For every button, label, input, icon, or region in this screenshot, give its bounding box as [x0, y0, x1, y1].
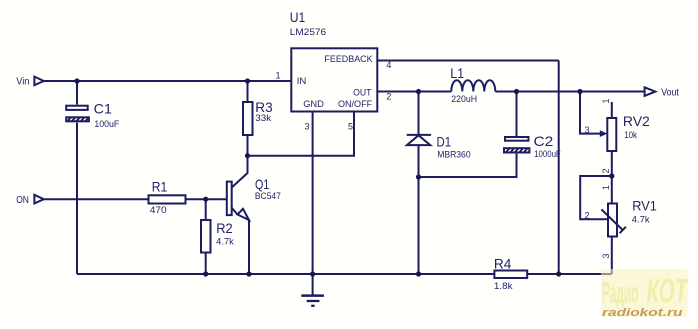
svg-text:220uH: 220uH	[451, 94, 477, 104]
svg-text:GND: GND	[303, 99, 324, 110]
ground	[301, 274, 324, 306]
svg-text:RV1: RV1	[632, 198, 657, 214]
node Vin-R3 junction	[245, 78, 250, 83]
svg-text:Радио: Радио	[602, 277, 639, 310]
wire R2 bottom lead	[205, 253, 207, 275]
node OUT-C2 junction	[514, 89, 519, 94]
svg-text:1: 1	[601, 185, 611, 190]
svg-text:2: 2	[585, 211, 590, 221]
svg-text:R2: R2	[216, 220, 233, 236]
transistor Q1 BC547	[227, 176, 281, 220]
svg-text:Vin: Vin	[16, 77, 29, 88]
resistor R4	[494, 255, 527, 291]
capacitor C2	[504, 133, 561, 159]
svg-text:4: 4	[386, 60, 391, 70]
capacitor C1	[66, 101, 119, 130]
wire C2 top lead	[516, 92, 518, 137]
wire RV2 wiper branch from Vout line	[580, 92, 601, 134]
svg-text:Vout: Vout	[661, 88, 679, 99]
svg-text:IN: IN	[297, 76, 307, 87]
svg-text:FEEDBACK: FEEDBACK	[324, 54, 373, 65]
node R2-rail junction	[203, 271, 208, 276]
wire RV1 pin1-wiper strap	[580, 176, 612, 219]
wire D1 cathode lead	[418, 92, 420, 135]
wire pin3 GND down to ground rail	[312, 112, 314, 275]
wire RV1 pin 1 lead	[611, 176, 613, 204]
inductor L1	[450, 65, 495, 104]
wire ON net	[44, 198, 227, 200]
svg-text:4.7k: 4.7k	[632, 214, 650, 224]
svg-text:Q1: Q1	[255, 176, 269, 192]
svg-text:КОТ: КОТ	[647, 273, 689, 311]
wire RV2 pin 1 stub	[611, 102, 613, 118]
node Vin-C1 junction	[74, 78, 79, 83]
port Vout	[645, 87, 679, 98]
resistor R2	[201, 220, 234, 253]
wire R3 bottom lead	[247, 135, 249, 156]
svg-text:R4: R4	[494, 255, 512, 271]
svg-text:MBR360: MBR360	[437, 150, 470, 160]
node ON-R2 junction	[203, 197, 208, 202]
potentiometer RV1	[601, 198, 657, 237]
svg-text:C2: C2	[534, 133, 554, 149]
svg-text:C1: C1	[94, 101, 113, 117]
svg-text:radiokot.ru: radiokot.ru	[602, 307, 683, 319]
svg-text:4.7k: 4.7k	[216, 236, 234, 246]
svg-text:R1: R1	[152, 179, 168, 195]
svg-text:ON: ON	[16, 195, 29, 206]
node D1-C2 junction	[416, 174, 421, 179]
wire RV1 pin 3 lead to feedback rail	[611, 237, 613, 275]
wire feedback horizontal from pin 4	[378, 60, 559, 62]
svg-text:5: 5	[348, 122, 353, 132]
wire pin5 ON/OFF to Q1 collector node	[248, 112, 355, 156]
wire D1 anode lead down to ground rail	[418, 145, 420, 274]
node OUT-D1 junction	[416, 89, 421, 94]
wire C1 bottom lead down to ground rail	[76, 123, 78, 274]
wire Q1 emitter	[232, 208, 249, 274]
svg-text:10k: 10k	[624, 130, 637, 140]
diode D1 MBR360	[407, 134, 471, 160]
node D1-rail junction	[416, 271, 421, 276]
node RV2-RV1 junction	[609, 173, 614, 178]
wire Q1 collector	[232, 156, 248, 188]
svg-text:L1: L1	[450, 65, 464, 81]
svg-text:3: 3	[305, 122, 310, 132]
svg-text:2: 2	[386, 91, 391, 101]
svg-text:470: 470	[150, 205, 167, 215]
svg-text:3: 3	[601, 253, 611, 258]
wire RV2 pin 2 to RV1 node	[611, 151, 613, 176]
watermark radiokot	[601, 269, 689, 319]
svg-text:LM2576: LM2576	[290, 27, 326, 37]
node feedback-rail junction	[556, 271, 561, 276]
svg-text:1: 1	[601, 98, 611, 103]
svg-text:BC547: BC547	[255, 191, 281, 201]
svg-text:1.8k: 1.8k	[494, 281, 513, 291]
node OUT-RV2 junction	[577, 89, 582, 94]
wire Vin net (input rail)	[44, 80, 291, 82]
wire R2 top lead	[205, 199, 207, 220]
resistor R3	[243, 99, 273, 135]
node R3-pin5-collector junction	[245, 153, 250, 158]
wire ground rail left of R4	[77, 273, 494, 275]
wire R3 top lead	[247, 81, 249, 102]
port Vin	[16, 77, 44, 88]
node emitter-rail junction	[246, 271, 251, 276]
op IC U1 LM2576	[290, 9, 378, 112]
svg-text:100uF: 100uF	[94, 119, 119, 129]
svg-text:2: 2	[601, 168, 611, 173]
svg-text:U1: U1	[290, 9, 306, 25]
svg-text:3: 3	[585, 125, 590, 135]
svg-text:ON/OFF: ON/OFF	[338, 99, 372, 110]
svg-text:1000uF: 1000uF	[534, 149, 561, 159]
resistor R1	[149, 179, 186, 216]
svg-text:RV2: RV2	[623, 113, 650, 129]
wire OUT net (switch node to Vout)	[378, 91, 645, 93]
potentiometer RV2	[600, 113, 650, 151]
wire C1 top lead	[76, 81, 78, 105]
wire C2 bottom lead to D1 anode node	[419, 154, 517, 177]
svg-text:D1: D1	[437, 134, 452, 150]
node GND-rail junction	[310, 271, 315, 276]
wire feedback vertical down to R4 node	[558, 61, 560, 275]
svg-text:33k: 33k	[255, 113, 271, 123]
wire feedback rail right of R4	[527, 273, 612, 275]
svg-text:1: 1	[276, 71, 281, 81]
svg-text:OUT: OUT	[353, 88, 371, 99]
port ON	[16, 195, 44, 206]
